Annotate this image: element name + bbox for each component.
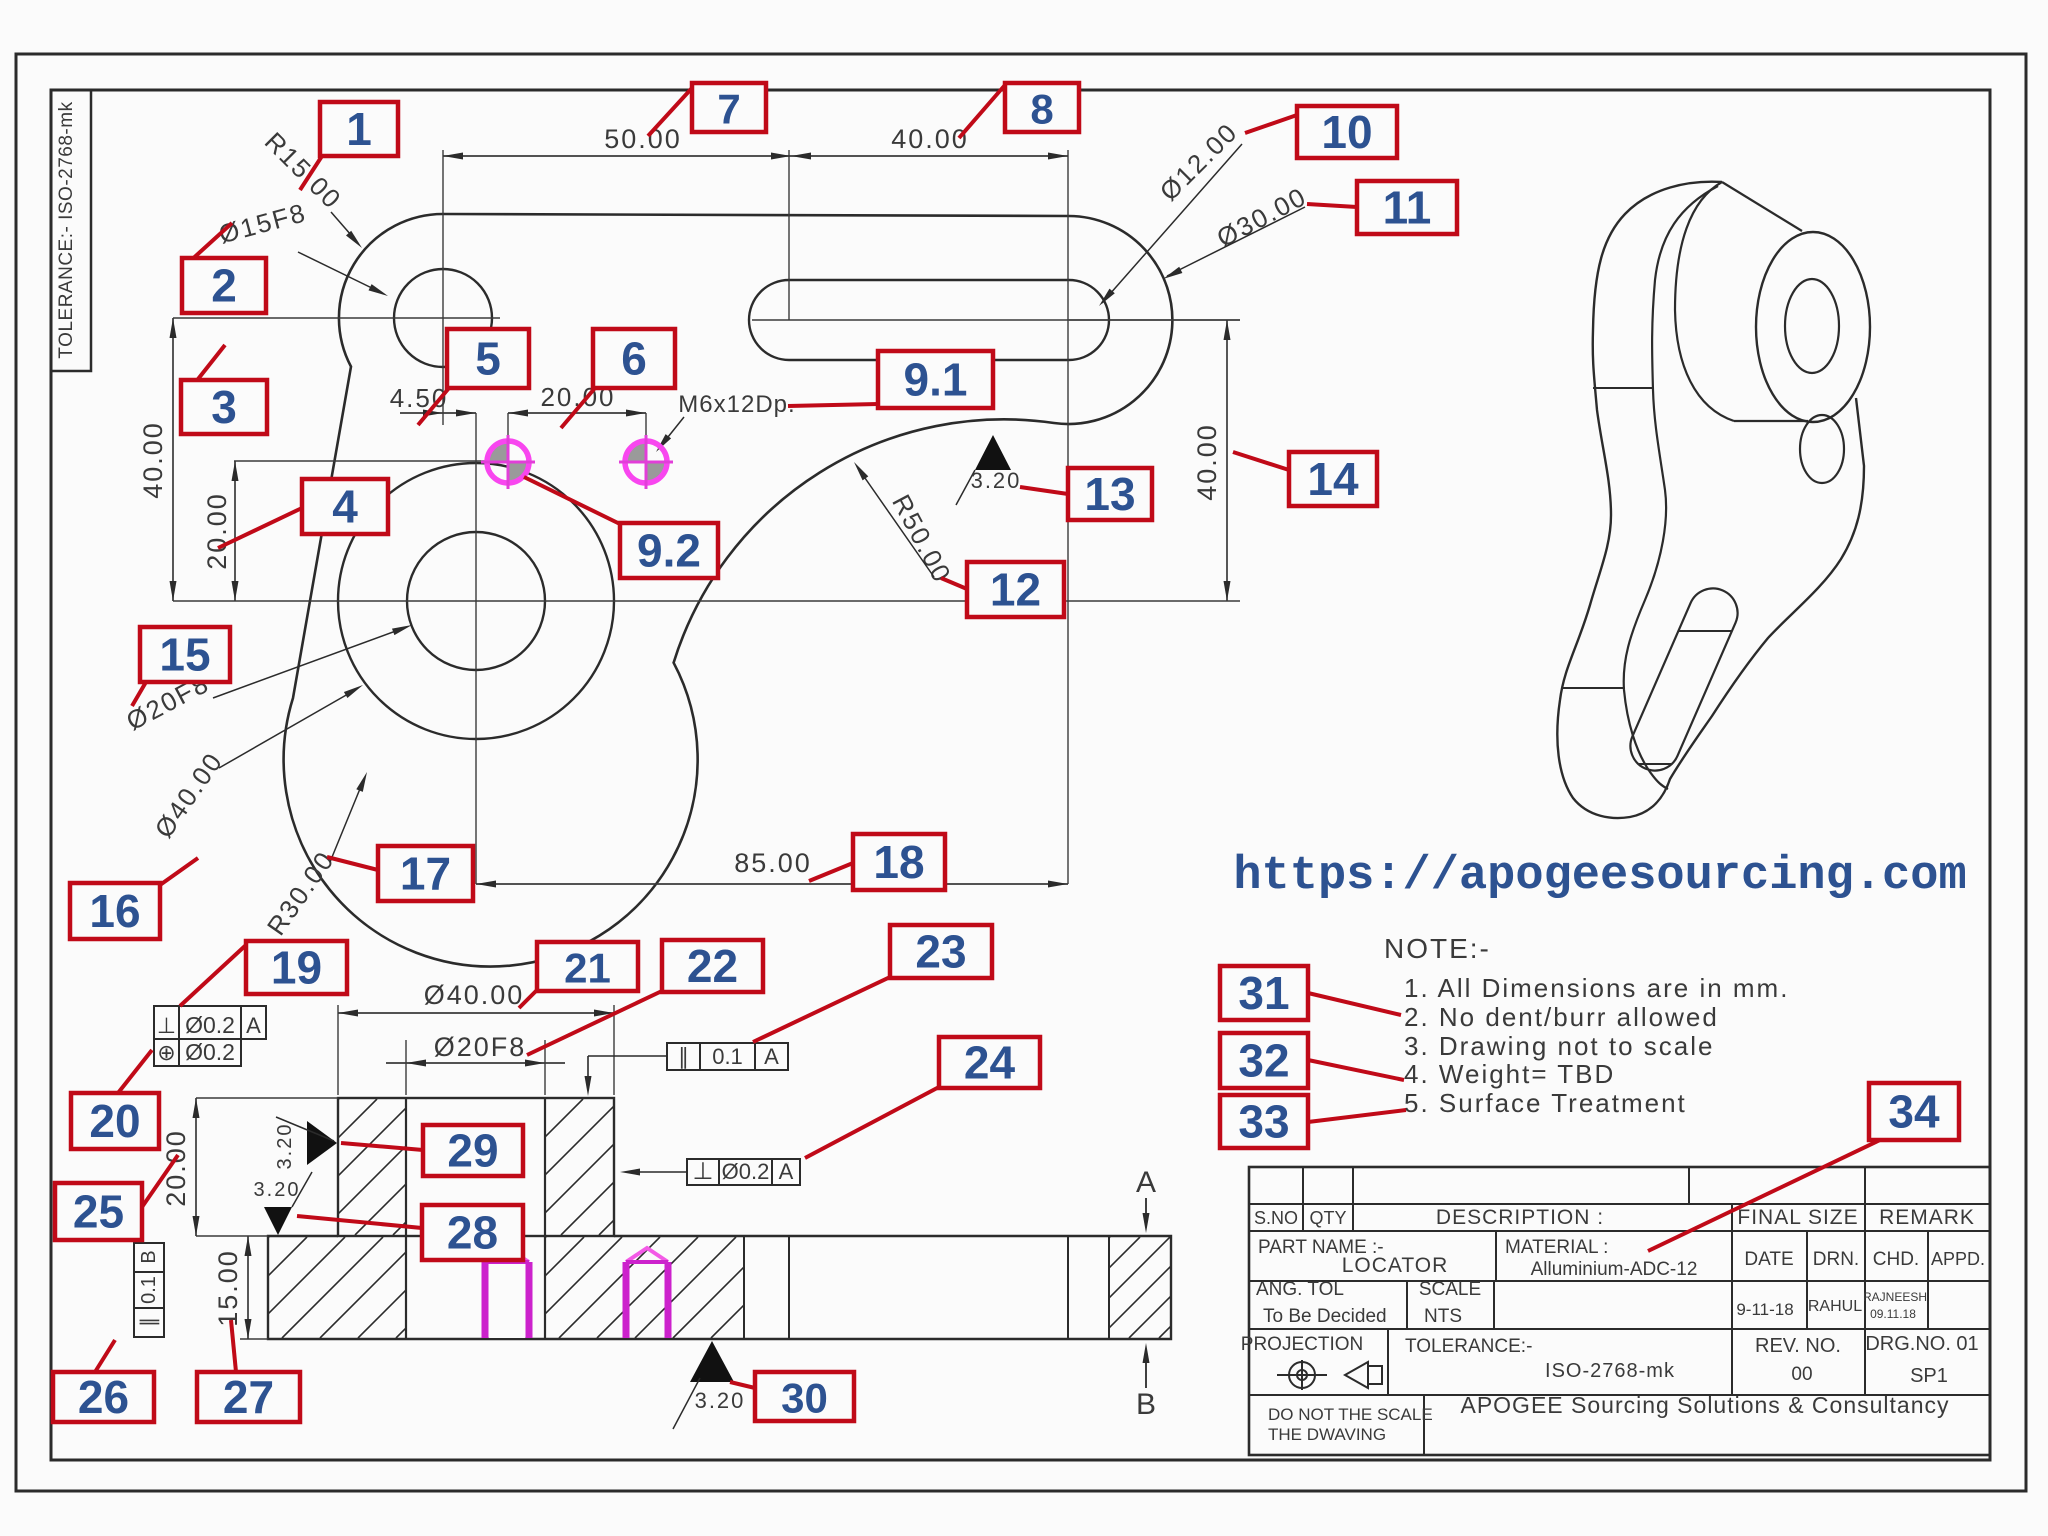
dim 40.00 top right bbox=[791, 155, 1068, 157]
label box 16 bbox=[70, 883, 160, 939]
svg-text:S.NO: S.NO bbox=[1254, 1208, 1298, 1228]
svg-text:16: 16 bbox=[89, 885, 140, 937]
iso small hole ellipse bbox=[1800, 415, 1844, 483]
surface symbol 29 (right-pointing) bbox=[307, 1121, 337, 1165]
label box 26 bbox=[53, 1372, 154, 1422]
leader 31 bbox=[1308, 993, 1401, 1015]
svg-text:32: 32 bbox=[1238, 1035, 1289, 1087]
leader 33 bbox=[1308, 1110, 1406, 1122]
dim 40.00 left vertical bbox=[172, 318, 174, 601]
leader 4 bbox=[218, 508, 302, 548]
svg-text:https://apogeesourcing.com: https://apogeesourcing.com bbox=[1233, 850, 1966, 903]
leader 10 bbox=[1245, 115, 1297, 133]
section base outline bbox=[268, 1236, 1171, 1339]
dim 20.00 section bbox=[196, 1097, 338, 1099]
dim 15.00 section bbox=[240, 1338, 268, 1340]
iso hole ellipse bbox=[1785, 279, 1839, 373]
leader 11 bbox=[1307, 204, 1357, 207]
label box 17 bbox=[378, 846, 473, 901]
svg-text:9-11-18: 9-11-18 bbox=[1736, 1300, 1793, 1319]
svg-text:7: 7 bbox=[717, 86, 740, 133]
leader 3 bbox=[187, 345, 225, 393]
svg-text:⊕: ⊕ bbox=[157, 1040, 175, 1065]
leader 32 bbox=[1308, 1060, 1404, 1080]
label box 10 bbox=[1297, 106, 1397, 158]
svg-text:A: A bbox=[246, 1013, 261, 1038]
svg-text:APPD.: APPD. bbox=[1931, 1249, 1985, 1269]
leader 13 bbox=[1020, 487, 1068, 494]
svg-text:Ø0.2: Ø0.2 bbox=[185, 1039, 235, 1065]
svg-text:1: 1 bbox=[346, 103, 372, 155]
svg-text:TOLERANCE:- ISO-2768-mk: TOLERANCE:- ISO-2768-mk bbox=[56, 101, 77, 358]
label box 32 bbox=[1220, 1033, 1308, 1088]
centerline slot horizontal bbox=[752, 319, 1240, 321]
iso top edge line bbox=[1722, 182, 1802, 231]
svg-text:23: 23 bbox=[915, 926, 966, 978]
label box 12 bbox=[967, 562, 1064, 617]
svg-text:5: 5 bbox=[475, 333, 501, 385]
svg-text:33: 33 bbox=[1238, 1096, 1289, 1148]
label box 27 bbox=[197, 1372, 300, 1422]
iso slot chord bottom bbox=[1639, 763, 1671, 765]
svg-text:DRN.: DRN. bbox=[1813, 1249, 1859, 1270]
label box 11 bbox=[1357, 181, 1457, 234]
label box 30 bbox=[755, 1372, 854, 1421]
label box 33 bbox=[1220, 1095, 1308, 1148]
svg-text:12: 12 bbox=[990, 564, 1041, 616]
leader 26 bbox=[95, 1340, 115, 1372]
svg-text:REV. NO.: REV. NO. bbox=[1755, 1335, 1841, 1357]
svg-text:09.11.18: 09.11.18 bbox=[1870, 1307, 1916, 1321]
leader 30 bbox=[730, 1382, 755, 1388]
svg-text:Ø40.00: Ø40.00 bbox=[424, 980, 525, 1010]
svg-text:22: 22 bbox=[687, 940, 738, 992]
svg-text:3.20: 3.20 bbox=[254, 1179, 301, 1201]
svg-text:Ø20F8: Ø20F8 bbox=[434, 1032, 527, 1062]
leader 25 bbox=[142, 1155, 178, 1207]
svg-text:34: 34 bbox=[1888, 1086, 1940, 1138]
svg-text:40.00: 40.00 bbox=[138, 421, 168, 499]
label box 4 bbox=[302, 479, 388, 534]
svg-text:18: 18 bbox=[873, 836, 924, 888]
frame position 0.2 bbox=[154, 1039, 179, 1066]
surface finish 3.20 main view bbox=[975, 435, 1011, 470]
svg-text:31: 31 bbox=[1238, 967, 1289, 1019]
svg-text:6: 6 bbox=[621, 333, 647, 385]
leader 9.2 bbox=[524, 477, 622, 525]
leader 29 bbox=[341, 1143, 423, 1150]
leader 6 bbox=[561, 388, 595, 428]
boss D40 circle bbox=[338, 463, 614, 739]
label box 28 bbox=[422, 1205, 523, 1260]
svg-text:0.1: 0.1 bbox=[712, 1044, 743, 1069]
svg-text:2: 2 bbox=[211, 260, 237, 312]
surface symbol 28 (down-pointing) bbox=[264, 1207, 292, 1235]
svg-text:30: 30 bbox=[781, 1375, 828, 1422]
iso break line lower bbox=[1561, 687, 1624, 689]
svg-text:⊥: ⊥ bbox=[693, 1158, 714, 1185]
svg-text:PROJECTION: PROJECTION bbox=[1241, 1334, 1363, 1355]
iso front face ellipse bbox=[1756, 232, 1870, 422]
iso slot chord top bbox=[1678, 630, 1732, 632]
label box 13 bbox=[1068, 468, 1152, 520]
svg-text:NOTE:-: NOTE:- bbox=[1384, 933, 1491, 964]
label box 9.1 bbox=[878, 351, 993, 408]
label box 31 bbox=[1220, 966, 1308, 1020]
svg-text:85.00: 85.00 bbox=[734, 848, 812, 878]
leader 12 bbox=[941, 578, 967, 589]
svg-text:DATE: DATE bbox=[1744, 1249, 1793, 1270]
label box 15 bbox=[140, 627, 230, 682]
leader 18 bbox=[809, 863, 853, 881]
svg-text:RAJNEESH: RAJNEESH bbox=[1863, 1290, 1927, 1304]
line through M6 holes / boss top bbox=[234, 460, 503, 462]
leader 2 bbox=[188, 223, 232, 263]
svg-text:3: 3 bbox=[211, 381, 237, 433]
svg-text:B: B bbox=[1136, 1388, 1156, 1421]
section boss block outline bbox=[338, 1098, 614, 1236]
label box 20 bbox=[71, 1093, 159, 1149]
leader 20 bbox=[118, 1050, 152, 1093]
part outline main view bbox=[284, 214, 1173, 967]
projection symbol bbox=[1289, 1362, 1315, 1388]
svg-text:24: 24 bbox=[964, 1037, 1016, 1089]
label box 22 bbox=[662, 940, 763, 992]
iso boss bottom line bbox=[1734, 420, 1808, 422]
svg-text:50.00: 50.00 bbox=[604, 124, 682, 154]
svg-text:TOLERANCE:-: TOLERANCE:- bbox=[1405, 1336, 1532, 1357]
frame parallel 0.1 B vertical bbox=[134, 1243, 164, 1272]
svg-text:A: A bbox=[779, 1159, 794, 1184]
svg-text:28: 28 bbox=[447, 1207, 498, 1259]
svg-text:17: 17 bbox=[400, 848, 451, 900]
svg-text:Ø0.2: Ø0.2 bbox=[722, 1159, 770, 1184]
svg-text:11: 11 bbox=[1383, 182, 1432, 234]
svg-text:SCALE: SCALE bbox=[1419, 1279, 1481, 1300]
svg-text:DESCRIPTION :: DESCRIPTION : bbox=[1436, 1206, 1604, 1229]
svg-text:A: A bbox=[764, 1044, 779, 1069]
svg-text:DO NOT THE SCALE: DO NOT THE SCALE bbox=[1268, 1405, 1433, 1424]
svg-text:M6x12Dp.: M6x12Dp. bbox=[678, 391, 795, 418]
svg-text:Ø0.2: Ø0.2 bbox=[185, 1012, 235, 1038]
leader 1 bbox=[300, 156, 322, 190]
iso band inner edge bbox=[1624, 186, 1718, 789]
extension slot right center bbox=[1067, 150, 1069, 884]
svg-text:5. Surface Treatment: 5. Surface Treatment bbox=[1404, 1088, 1687, 1118]
frame parallel 0.1 A bbox=[667, 1043, 700, 1070]
isometric view outer silhouette bbox=[1557, 182, 1864, 818]
extension slot left center bbox=[788, 150, 790, 320]
dim 20.00 left vertical bbox=[234, 461, 236, 601]
iso break line upper bbox=[1593, 387, 1653, 389]
dim 85.00 bottom bbox=[476, 883, 1068, 885]
svg-text:To Be Decided: To Be Decided bbox=[1263, 1306, 1387, 1327]
label box 24 bbox=[939, 1037, 1040, 1088]
leader 17 bbox=[327, 857, 378, 870]
svg-text:3.20: 3.20 bbox=[695, 1388, 746, 1413]
svg-text:NTS: NTS bbox=[1424, 1306, 1462, 1327]
centerline boss horizontal bbox=[173, 600, 1240, 602]
svg-text:40.00: 40.00 bbox=[1192, 423, 1222, 501]
dim D20F8 section bbox=[405, 1040, 407, 1095]
svg-text:RAHUL: RAHUL bbox=[1808, 1298, 1862, 1315]
leader 19 bbox=[180, 945, 246, 1006]
svg-text:2. No dent/burr allowed: 2. No dent/burr allowed bbox=[1404, 1002, 1719, 1032]
svg-text:MATERIAL :: MATERIAL : bbox=[1505, 1237, 1608, 1258]
frame perp 0.2 A bbox=[154, 1006, 179, 1039]
label box 2 bbox=[182, 258, 266, 313]
svg-text:9.1: 9.1 bbox=[904, 354, 968, 406]
leader 27 bbox=[231, 1320, 236, 1372]
svg-text:00: 00 bbox=[1791, 1364, 1812, 1385]
svg-text:Alluminium-ADC-12: Alluminium-ADC-12 bbox=[1531, 1259, 1698, 1280]
svg-text:DRG.NO. 01: DRG.NO. 01 bbox=[1865, 1333, 1978, 1355]
magenta pin 1 bbox=[485, 1262, 529, 1338]
svg-text:8: 8 bbox=[1030, 86, 1053, 133]
svg-text:26: 26 bbox=[78, 1371, 129, 1423]
hole D20 bbox=[407, 532, 545, 670]
svg-text:CHD.: CHD. bbox=[1873, 1249, 1919, 1270]
leader 21 bbox=[519, 990, 537, 1008]
label box 29 bbox=[423, 1125, 523, 1176]
leader 34 bbox=[1648, 1140, 1880, 1251]
svg-text:15: 15 bbox=[159, 629, 210, 681]
svg-text:21: 21 bbox=[564, 945, 611, 992]
svg-text:THE DWAVING: THE DWAVING bbox=[1268, 1425, 1386, 1444]
iso slot obround bbox=[1630, 588, 1737, 770]
svg-text:B: B bbox=[138, 1250, 160, 1263]
svg-text:A: A bbox=[1136, 1166, 1156, 1199]
svg-text:APOGEE Sourcing Solutions & Co: APOGEE Sourcing Solutions & Consultancy bbox=[1460, 1392, 1949, 1418]
label box 14 bbox=[1289, 452, 1377, 506]
svg-text:3.20: 3.20 bbox=[971, 468, 1022, 493]
svg-text:20.00: 20.00 bbox=[202, 492, 232, 570]
centerline top hole vertical bbox=[442, 150, 444, 392]
svg-text:ISO-2768-mk: ISO-2768-mk bbox=[1545, 1360, 1675, 1382]
svg-text:15.00: 15.00 bbox=[213, 1249, 243, 1327]
svg-text:4. Weight= TBD: 4. Weight= TBD bbox=[1404, 1059, 1615, 1089]
svg-text:0.1: 0.1 bbox=[138, 1276, 160, 1304]
svg-text:25: 25 bbox=[73, 1186, 124, 1238]
label box 18 bbox=[853, 834, 945, 890]
leader 23 bbox=[753, 977, 890, 1042]
svg-text:FINAL SIZE: FINAL SIZE bbox=[1737, 1206, 1858, 1229]
label box 3 bbox=[181, 380, 267, 434]
svg-text:40.00: 40.00 bbox=[891, 124, 969, 154]
svg-text:SP1: SP1 bbox=[1910, 1365, 1948, 1387]
section hole walls bbox=[405, 1098, 407, 1339]
dim 40.00 right vertical bbox=[1069, 319, 1240, 321]
svg-text:1. All Dimensions are in mm.: 1. All Dimensions are in mm. bbox=[1404, 973, 1789, 1003]
label box 23 bbox=[890, 925, 992, 978]
leader 16 bbox=[160, 858, 198, 885]
dim D40.00 section bbox=[337, 1005, 339, 1095]
svg-text:3. Drawing not to scale: 3. Drawing not to scale bbox=[1404, 1031, 1714, 1061]
label box 19 bbox=[246, 941, 347, 994]
svg-text:QTY: QTY bbox=[1309, 1208, 1346, 1228]
leader 24 bbox=[805, 1087, 939, 1158]
label box 7 bbox=[692, 83, 766, 132]
svg-text:ANG. TOL: ANG. TOL bbox=[1256, 1279, 1344, 1300]
M6 tapped hole at x=646 bbox=[625, 441, 646, 462]
label box 1 bbox=[320, 102, 398, 156]
svg-text:REMARK: REMARK bbox=[1879, 1206, 1975, 1229]
dim 4.50 bbox=[400, 412, 476, 414]
label box 6 bbox=[593, 329, 675, 388]
leader 9.1 bbox=[788, 404, 878, 406]
svg-text:3.20: 3.20 bbox=[274, 1123, 296, 1170]
svg-text:27: 27 bbox=[223, 1371, 274, 1423]
label box 9.2 bbox=[620, 523, 718, 578]
svg-text:14: 14 bbox=[1307, 453, 1359, 505]
svg-text:4: 4 bbox=[332, 481, 358, 533]
leader 5 bbox=[418, 388, 449, 425]
magenta pin 2 bbox=[626, 1262, 668, 1338]
centerline boss vertical bbox=[475, 413, 477, 884]
centerline top hole horizontal bbox=[173, 317, 500, 319]
frame perp 0.2 A right bbox=[687, 1159, 719, 1185]
svg-text:10: 10 bbox=[1321, 106, 1372, 158]
leader 8 bbox=[959, 85, 1005, 138]
iso boss back-face arc bbox=[1675, 182, 1734, 421]
label box 5 bbox=[447, 329, 529, 388]
svg-text:∥: ∥ bbox=[678, 1044, 689, 1069]
svg-text:20: 20 bbox=[89, 1095, 140, 1147]
leader 14 bbox=[1233, 452, 1289, 470]
svg-text:LOCATOR: LOCATOR bbox=[1342, 1254, 1449, 1277]
surface symbol 30 (up-pointing) bbox=[690, 1341, 734, 1382]
base verticals bbox=[743, 1236, 745, 1339]
svg-text:20.00: 20.00 bbox=[161, 1129, 191, 1207]
M6 tapped hole at x=508 bbox=[487, 441, 508, 462]
svg-text:13: 13 bbox=[1084, 468, 1135, 520]
svg-text:⊥: ⊥ bbox=[157, 1013, 176, 1038]
label box 34 bbox=[1869, 1083, 1959, 1140]
label box 25 bbox=[55, 1183, 142, 1240]
hole D15 bbox=[394, 269, 492, 367]
leader 28 bbox=[297, 1216, 422, 1228]
label box 21 bbox=[537, 942, 638, 991]
svg-text:29: 29 bbox=[447, 1125, 498, 1177]
svg-text:19: 19 bbox=[271, 942, 322, 994]
leader 7 bbox=[648, 88, 692, 136]
tolerance box top-left bbox=[51, 90, 91, 371]
svg-text:9.2: 9.2 bbox=[637, 525, 701, 577]
dim 20.00 M6 spacing bbox=[508, 412, 646, 414]
svg-text:∥: ∥ bbox=[138, 1317, 160, 1327]
leader 22 bbox=[527, 990, 664, 1055]
dim 50.00 top bbox=[443, 155, 791, 157]
leader 15 bbox=[132, 682, 146, 706]
title block bbox=[1249, 1167, 1990, 1455]
label box 8 bbox=[1005, 83, 1079, 132]
slot inner obround bbox=[749, 280, 1109, 360]
